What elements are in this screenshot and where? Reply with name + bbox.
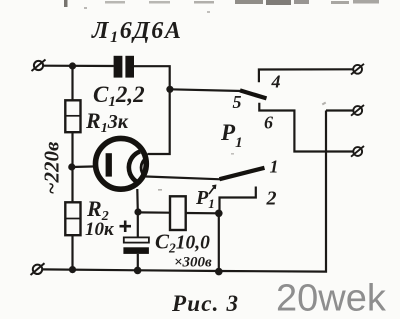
svg-text:6: 6 xyxy=(264,113,273,133)
svg-text:5: 5 xyxy=(233,92,242,112)
svg-text:2: 2 xyxy=(266,188,277,210)
svg-text:C210,0: C210,0 xyxy=(155,230,210,256)
wire: top-left terminal to C1 xyxy=(44,65,114,68)
svg-text:4: 4 xyxy=(271,72,281,92)
tube U1 envelope xyxy=(96,138,147,189)
wire: left rail down to R1 xyxy=(71,66,73,101)
terminal top-right xyxy=(351,64,364,75)
node: junction at switch feed xyxy=(166,86,173,93)
relay coil P1 xyxy=(170,196,186,230)
wire: coil to node xyxy=(186,212,219,215)
switch blade 1 xyxy=(220,168,265,179)
wire: junction to relay coil xyxy=(138,211,170,214)
node: grid junction xyxy=(68,163,75,170)
svg-text:Рис. 3: Рис. 3 xyxy=(171,291,239,316)
arrow mark of small P1 xyxy=(209,186,216,195)
wire: bottom rail xyxy=(43,111,327,272)
tube cathode arc small xyxy=(141,158,146,177)
contact 4 wire to terminal xyxy=(259,69,353,82)
node: coil right junction xyxy=(215,210,223,218)
svg-text:10к: 10к xyxy=(85,219,115,240)
wire: rail R1 to R2 xyxy=(71,132,73,202)
capacitor C1 plates xyxy=(114,56,123,78)
wire: middle-right terminal feed xyxy=(326,109,353,111)
plus sign of C2 xyxy=(120,221,132,233)
wire: armature 1 from tube xyxy=(146,177,221,180)
scan specks xyxy=(84,7,326,191)
svg-text:Л16Д6А: Л16Д6А xyxy=(91,18,183,46)
wire: armature 5 feed xyxy=(170,89,242,91)
node: bottom rail C2 xyxy=(134,267,142,275)
node: bottom rail R2 xyxy=(69,266,76,273)
wire: C1 to right corner xyxy=(134,66,170,154)
wire: to tube left pin xyxy=(72,165,97,168)
wire: R2 to bottom rail xyxy=(71,235,73,269)
wire: node down to bottom rail xyxy=(218,213,220,271)
svg-text:C12,2: C12,2 xyxy=(93,82,145,110)
switch blade 5 xyxy=(240,90,267,98)
node: junction top-left rail xyxy=(69,62,76,69)
tube cathode arc large xyxy=(129,152,140,184)
resistor R1 xyxy=(65,100,80,132)
terminal top-left xyxy=(32,60,46,72)
contact 2 wire xyxy=(220,187,256,214)
wire: tube bottom pin xyxy=(136,189,139,212)
resistor R2 xyxy=(65,202,80,235)
node: bottom rail coil xyxy=(215,268,223,276)
terminal middle-right xyxy=(351,105,364,116)
terminal lower-right xyxy=(351,146,364,157)
capacitor C2 electrolytic xyxy=(137,212,139,237)
svg-text:20wek: 20wek xyxy=(276,278,387,319)
svg-text:×300в: ×300в xyxy=(174,255,212,271)
tube anode bar xyxy=(106,153,112,176)
svg-text:~220в: ~220в xyxy=(40,141,64,194)
terminal bottom-left xyxy=(31,263,45,275)
svg-text:1: 1 xyxy=(270,157,279,177)
node: cathode junction xyxy=(134,208,141,215)
contact 6 wire xyxy=(259,103,353,152)
svg-text:R13к: R13к xyxy=(85,108,129,136)
cropped text line at top edge xyxy=(64,0,379,7)
